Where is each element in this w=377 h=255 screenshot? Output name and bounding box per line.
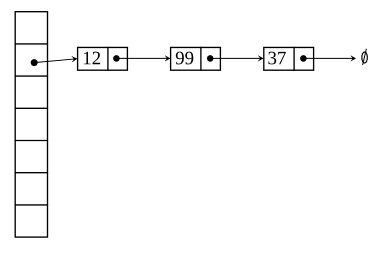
- array cell divider 2: [15, 75, 49, 77]
- array cell divider 6: [15, 204, 49, 206]
- node 37 value label: [268, 52, 285, 65]
- node 37 pointer dot: [300, 55, 307, 62]
- arrow from node 12 to node 99: [116, 56, 169, 61]
- node 12 value label: [84, 52, 100, 65]
- slot 2 pointer dot: [31, 59, 38, 66]
- node 37 divider: [293, 47, 295, 71]
- node 99 box: [171, 47, 221, 70]
- empty set symbol (null terminator): [362, 49, 368, 65]
- array cell divider 1: [15, 43, 49, 45]
- node 99 value label: [176, 52, 194, 65]
- arrow from slot 2 to node 12 (shaft): [34, 56, 77, 63]
- node 12 pointer dot: [113, 55, 120, 62]
- node 99 divider: [200, 47, 202, 71]
- node 37 box: [264, 47, 314, 70]
- node 12 box: [78, 47, 128, 70]
- arrow from node 99 to node 37: [210, 56, 263, 61]
- array cell divider 3: [15, 107, 49, 109]
- array cell divider 5: [15, 172, 49, 174]
- hash table array frame: [15, 12, 47, 237]
- node 12 divider: [107, 47, 109, 71]
- node 99 pointer dot: [207, 55, 214, 62]
- arrow from node 37 to empty set: [303, 56, 355, 61]
- array cell divider 4: [15, 140, 49, 142]
